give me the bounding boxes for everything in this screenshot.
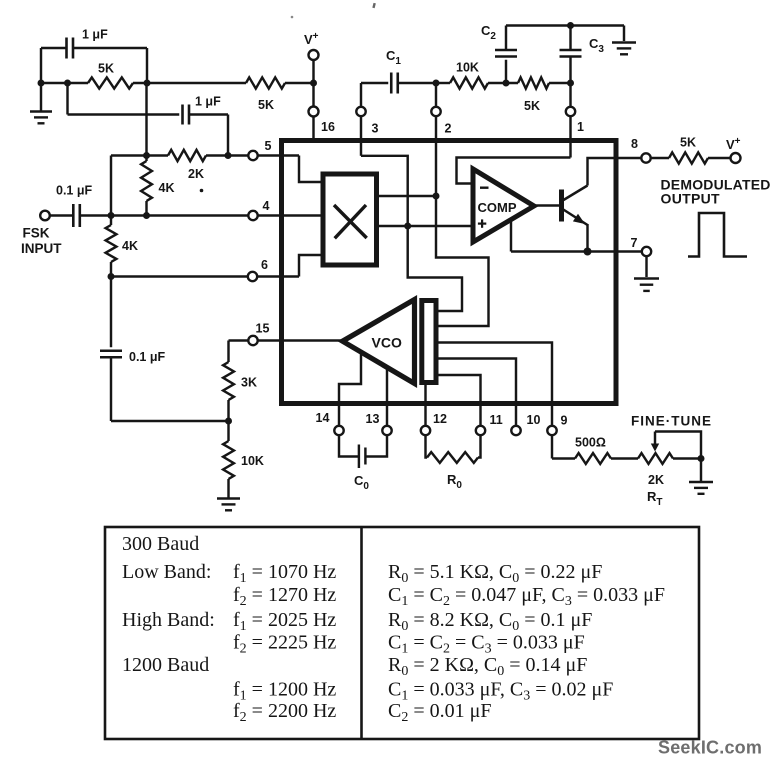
- svg-text:VCO: VCO: [372, 335, 402, 351]
- svg-text:0.1 μF: 0.1 μF: [129, 350, 165, 364]
- svg-text:6: 6: [261, 258, 268, 272]
- svg-text:0.1 μF: 0.1 μF: [56, 184, 92, 198]
- svg-text:5K: 5K: [98, 62, 114, 76]
- svg-text:R0 = 8.2 KΩ, C0 = 0.1 μF: R0 = 8.2 KΩ, C0 = 0.1 μF: [388, 609, 592, 634]
- svg-text:5K: 5K: [524, 99, 540, 113]
- svg-text:f2 = 1270 Hz: f2 = 1270 Hz: [233, 584, 336, 609]
- svg-text:1 μF: 1 μF: [82, 28, 108, 42]
- svg-text:f1 = 1070 Hz: f1 = 1070 Hz: [233, 561, 336, 586]
- svg-text:300 Baud: 300 Baud: [122, 533, 199, 555]
- svg-text:5K: 5K: [258, 98, 274, 112]
- svg-text:High Band:: High Band:: [122, 609, 215, 631]
- svg-text:11: 11: [490, 413, 503, 427]
- svg-text:f2 = 2200 Hz: f2 = 2200 Hz: [233, 700, 336, 725]
- svg-text:R0 = 2 KΩ, C0 = 0.14 μF: R0 = 2 KΩ, C0 = 0.14 μF: [388, 654, 587, 679]
- svg-text:2: 2: [445, 122, 452, 136]
- svg-text:12: 12: [433, 412, 447, 426]
- svg-text:C1 = C2 = 0.047 μF, C3 = 0.033: C1 = C2 = 0.047 μF, C3 = 0.033 μF: [388, 584, 665, 609]
- svg-text:3: 3: [372, 122, 379, 136]
- svg-text:4: 4: [263, 199, 270, 213]
- svg-text:9: 9: [561, 414, 568, 428]
- svg-text:R0 = 5.1 KΩ, C0 = 0.22 μF: R0 = 5.1 KΩ, C0 = 0.22 μF: [388, 561, 602, 586]
- svg-text:1: 1: [577, 120, 584, 134]
- svg-text:4K: 4K: [122, 239, 138, 253]
- svg-text:1200 Baud: 1200 Baud: [122, 654, 209, 676]
- svg-text:f2 = 2225 Hz: f2 = 2225 Hz: [233, 632, 336, 657]
- svg-text:Low Band:: Low Band:: [122, 561, 211, 583]
- svg-text:OUTPUT: OUTPUT: [661, 191, 720, 207]
- svg-text:7: 7: [631, 236, 638, 250]
- svg-text:INPUT: INPUT: [21, 241, 62, 256]
- svg-text:COMP: COMP: [478, 200, 517, 215]
- svg-text:16: 16: [321, 120, 335, 134]
- svg-text:15: 15: [256, 322, 270, 336]
- svg-text:4K: 4K: [159, 181, 175, 195]
- svg-text:FSK: FSK: [23, 226, 50, 241]
- svg-text:1 μF: 1 μF: [195, 95, 221, 109]
- svg-text:2K: 2K: [188, 167, 204, 181]
- svg-text:f1 = 2025 Hz: f1 = 2025 Hz: [233, 609, 336, 634]
- svg-text:FINE·TUNE: FINE·TUNE: [631, 414, 712, 429]
- svg-text:8: 8: [631, 137, 638, 151]
- svg-text:5K: 5K: [680, 136, 696, 150]
- svg-text:5: 5: [265, 139, 272, 153]
- svg-text:10K: 10K: [456, 61, 479, 75]
- svg-text:SeekIC.com: SeekIC.com: [658, 738, 762, 758]
- svg-text:13: 13: [366, 412, 380, 426]
- svg-text:2K: 2K: [648, 473, 664, 487]
- svg-text:500Ω: 500Ω: [575, 436, 606, 450]
- svg-text:14: 14: [316, 411, 330, 425]
- svg-text:3K: 3K: [241, 376, 257, 390]
- svg-text:10K: 10K: [241, 454, 264, 468]
- svg-text:10: 10: [527, 413, 541, 427]
